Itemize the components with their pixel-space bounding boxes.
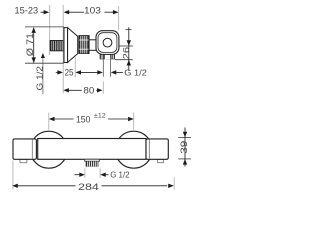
svg-text:284: 284 (78, 182, 100, 193)
svg-text:15-23: 15-23 (15, 5, 39, 15)
svg-text:G 1/2: G 1/2 (110, 170, 130, 180)
svg-text:G 1/2: G 1/2 (34, 66, 44, 91)
svg-text:150: 150 (76, 114, 90, 125)
svg-text:103: 103 (84, 5, 101, 15)
svg-text:26: 26 (121, 47, 131, 60)
svg-text:±12: ±12 (94, 112, 106, 119)
svg-text:80: 80 (83, 86, 94, 96)
svg-text:25: 25 (65, 68, 74, 78)
svg-text:39: 39 (179, 141, 189, 154)
svg-text:G 1/2: G 1/2 (124, 68, 147, 78)
svg-text:Ø 71: Ø 71 (25, 33, 35, 56)
